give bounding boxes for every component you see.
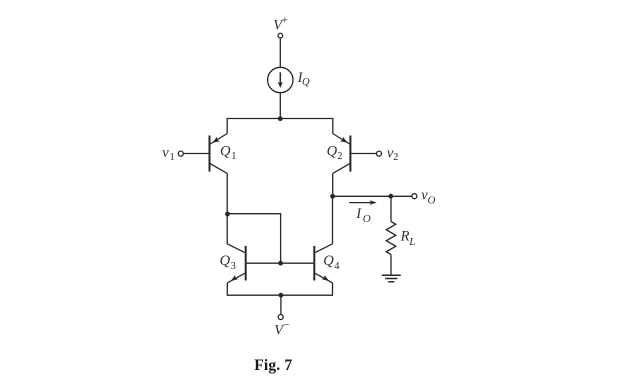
junction output node (330, 194, 335, 199)
svg-text:Q: Q (220, 253, 231, 269)
svg-text:O: O (428, 194, 436, 206)
transistor Q1 (183, 134, 227, 174)
wire Q2 collector down (332, 173, 334, 196)
wire to RL (390, 196, 392, 221)
svg-text:4: 4 (334, 261, 340, 272)
arrowhead IQ (278, 82, 283, 88)
svg-text:O: O (363, 213, 371, 225)
svg-text:2: 2 (337, 151, 342, 162)
ground (382, 275, 401, 282)
transistor Q4 (314, 244, 332, 283)
junction RL node (388, 194, 393, 199)
svg-text:Q: Q (220, 144, 231, 160)
svg-text:Q: Q (327, 144, 338, 160)
svg-text:Q: Q (323, 253, 334, 269)
wire Q3 collector (227, 214, 245, 253)
node V- terminal (278, 315, 283, 320)
svg-text:L: L (408, 236, 415, 248)
svg-text:+: + (282, 15, 288, 27)
junction below IQ (278, 116, 283, 121)
svg-text:R: R (400, 229, 410, 245)
transistor Q2 (333, 134, 377, 174)
node vO terminal (412, 194, 417, 199)
resistor RL (386, 222, 396, 255)
wire to V- (280, 295, 282, 314)
arrowhead IO (370, 200, 377, 205)
node v1 terminal (178, 151, 183, 156)
svg-text:2: 2 (393, 152, 398, 163)
wire Q1 collector down (226, 173, 228, 213)
arrowhead Q2 emitter (340, 137, 347, 143)
svg-text:−: − (283, 319, 289, 331)
junction bottom rail (279, 293, 284, 298)
wire top rail (227, 119, 333, 134)
wire base rail Q3-Q4 (247, 262, 314, 264)
svg-text:3: 3 (231, 261, 236, 272)
junction base node (278, 261, 283, 266)
current source IQ (268, 67, 293, 92)
svg-text:v: v (162, 145, 169, 161)
wire (279, 38, 281, 67)
node v2 terminal (377, 151, 382, 156)
wire Q4 collector up (332, 196, 334, 244)
wire (279, 93, 281, 119)
wire bottom rail (227, 283, 332, 295)
arrowhead Q3 emitter (231, 275, 238, 281)
wire to ground (390, 255, 392, 276)
wire IO arrow shaft (349, 202, 371, 204)
svg-text:Q: Q (302, 77, 310, 88)
node V+ terminal (278, 33, 283, 38)
svg-text:1: 1 (170, 152, 175, 163)
wire output (333, 195, 412, 197)
junction Q1 collector node (225, 212, 230, 217)
svg-text:I: I (355, 206, 362, 222)
wire mirror tie (227, 214, 280, 264)
arrowhead Q1 emitter (212, 137, 219, 143)
arrowhead Q4 emitter (322, 275, 329, 281)
svg-text:Fig. 7: Fig. 7 (254, 357, 292, 374)
svg-text:1: 1 (231, 151, 236, 162)
transistor Q3 (227, 246, 245, 283)
